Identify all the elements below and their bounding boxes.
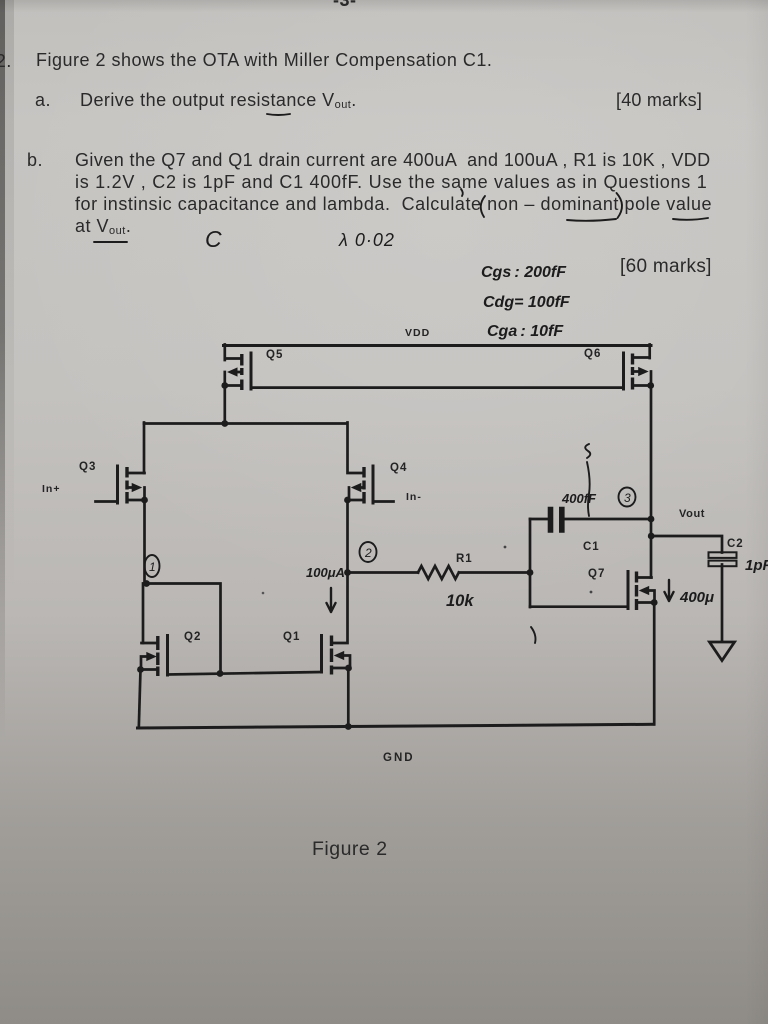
- svg-text:R1: R1: [456, 553, 473, 565]
- capacitor C1: [530, 510, 651, 531]
- wire node1 down to Q2 drain: [142, 584, 145, 644]
- capacitor C2: [709, 552, 737, 641]
- transistor Q6: [624, 345, 655, 390]
- GND rail: [138, 724, 655, 728]
- resistor R1 zigzag: [418, 566, 459, 579]
- printed question text: [36, 50, 492, 71]
- handwritten parenthesis before 'non': [481, 196, 485, 217]
- svg-text:C: C: [205, 226, 222, 252]
- svg-text:λ 0·02: λ 0·02: [338, 230, 395, 250]
- squiggle above C1 value: [585, 444, 590, 516]
- gate rail Q5-Q6: [251, 386, 624, 389]
- circled 3 annotation: [619, 488, 636, 507]
- gate rail Q2-Q1: [168, 672, 322, 675]
- svg-text:2: 2: [364, 546, 372, 560]
- svg-text:10k: 10k: [446, 592, 474, 610]
- transistor Q5: [221, 345, 251, 424]
- svg-text:3: 3: [624, 491, 631, 505]
- svg-text:1pF: 1pF: [745, 557, 768, 574]
- tail rail node (Q5 drain to diff pair sources): [144, 422, 347, 425]
- pen stroke below C1 box: [531, 627, 536, 643]
- pen tick under same: [461, 189, 463, 196]
- svg-text:Cdg= 100fF: Cdg= 100fF: [483, 294, 571, 311]
- ground symbol: [710, 642, 735, 661]
- VDD rail: [224, 344, 652, 347]
- transistor Q2: [137, 636, 167, 729]
- svg-text:GND: GND: [383, 752, 415, 764]
- handwritten down arrow at node 2: [327, 588, 336, 612]
- svg-text:Q5: Q5: [266, 349, 283, 361]
- svg-text:Q2: Q2: [184, 631, 201, 643]
- page number -3- (clipped at top): [333, 0, 357, 11]
- svg-text:100μA: 100μA: [306, 565, 345, 580]
- circled 1 annotation: [145, 555, 160, 577]
- transistor Q3: [96, 466, 148, 584]
- wire down to Q3: [143, 423, 146, 474]
- svg-text:Q6: Q6: [584, 348, 601, 360]
- svg-text:Q3: Q3: [79, 461, 96, 473]
- handwritten annotations: [94, 114, 708, 643]
- Vout node: [648, 533, 655, 540]
- svg-text:400μ: 400μ: [679, 589, 714, 606]
- transistor Q7: [628, 572, 658, 725]
- left page-edge shadow: [0, 0, 5, 740]
- figure caption: [312, 838, 388, 861]
- svg-text:Cgs : 200fF: Cgs : 200fF: [481, 264, 567, 281]
- bottom wire of C1 box to Q7 gate: [530, 605, 628, 608]
- node 1: Q3 drain to mirror gates: [143, 580, 150, 587]
- printed schematic labels: [42, 327, 744, 764]
- handwritten down arrow at Q7 (400uA): [665, 580, 674, 601]
- svg-text:In-: In-: [406, 491, 422, 503]
- underline under dominant: [567, 219, 616, 221]
- svg-text:Q1: Q1: [283, 631, 300, 643]
- underline under 'value': [673, 218, 708, 220]
- svg-text:Cga : 10fF: Cga : 10fF: [487, 323, 564, 340]
- wire: Q6 source down to Q7 drain: [650, 386, 653, 578]
- C1 feedback box left side: [529, 519, 532, 607]
- svg-text:Q4: Q4: [390, 462, 407, 474]
- svg-text:400fF: 400fF: [561, 491, 597, 506]
- svg-text:C2: C2: [727, 538, 744, 550]
- svg-text:In+: In+: [42, 483, 60, 495]
- stray pen dots: [504, 546, 507, 549]
- transistor Q4: [344, 423, 393, 573]
- svg-text:C1: C1: [583, 541, 600, 553]
- question number 2. (clipped at left): [0, 50, 12, 72]
- svg-text:VDD: VDD: [405, 327, 430, 339]
- circled 2 annotation: [360, 542, 377, 562]
- underline under 'Vout' (at Vout.): [94, 241, 127, 243]
- svg-text:1: 1: [149, 560, 156, 574]
- node 2 and resistor R1: [344, 569, 351, 576]
- svg-text:Q7: Q7: [588, 568, 605, 580]
- svg-text:Vout: Vout: [679, 508, 705, 520]
- transistor Q1: [322, 573, 352, 727]
- underline under 'out' (line a): [267, 114, 290, 115]
- handwritten parenthesis after 'dominant': [617, 193, 623, 218]
